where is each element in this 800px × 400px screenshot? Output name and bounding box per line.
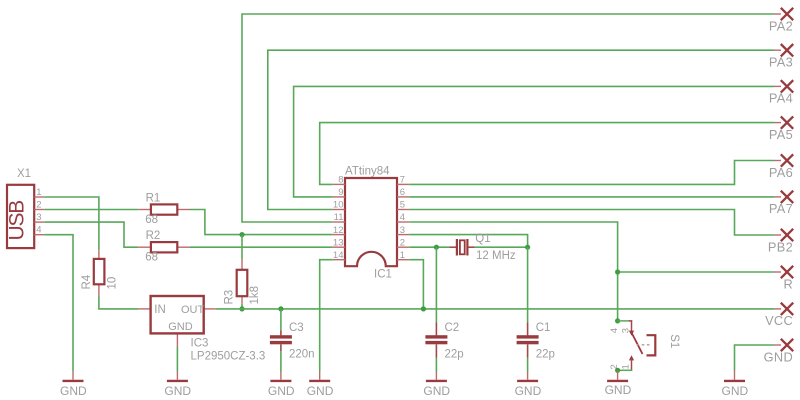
svg-text:4: 4 <box>36 225 41 236</box>
node pin1/VCC junction <box>421 306 426 311</box>
crystal Q1 <box>449 233 515 262</box>
svg-text:GND: GND <box>164 384 191 398</box>
wire PA5 net to pin8 <box>320 123 774 185</box>
wire pin6 to PA7 <box>409 196 774 198</box>
node crystal right junction <box>525 245 530 250</box>
ground under C3 <box>268 372 295 398</box>
svg-text:USB: USB <box>6 201 29 241</box>
svg-text:220n: 220n <box>289 348 315 360</box>
svg-text:ATtiny84: ATtiny84 <box>345 166 390 178</box>
svg-text:S1: S1 <box>668 334 680 348</box>
ground under C1 <box>515 372 542 398</box>
ground under IC3 <box>164 371 191 398</box>
svg-text:VCC: VCC <box>765 313 793 328</box>
port pin PA3 <box>769 44 793 70</box>
svg-text:1k8: 1k8 <box>249 286 261 305</box>
svg-text:7: 7 <box>400 175 405 186</box>
wire C1 to ground <box>527 358 529 373</box>
wire usb pin3 to R2 <box>44 222 138 247</box>
port pin PB2 <box>768 229 793 255</box>
svg-text:68: 68 <box>145 252 158 264</box>
port pin PA5 <box>769 116 793 141</box>
svg-text:GND: GND <box>605 383 632 397</box>
svg-text:10: 10 <box>106 277 118 290</box>
wire C3 to ground <box>280 351 282 372</box>
svg-text:IN: IN <box>154 304 166 316</box>
wire pin3 to crystal right <box>409 235 527 248</box>
svg-text:Q1: Q1 <box>475 233 490 245</box>
ground under pin14 <box>307 371 334 398</box>
svg-text:4: 4 <box>400 212 405 223</box>
svg-text:PA2: PA2 <box>769 18 793 33</box>
svg-text:3: 3 <box>621 328 632 333</box>
svg-text:5: 5 <box>400 200 405 211</box>
wire usb pin4 to ground <box>44 235 73 371</box>
svg-text:GND: GND <box>515 384 542 398</box>
wire PA4 net to pin9 <box>294 86 774 196</box>
node D- junction at R1/R3/pin12 <box>239 232 244 237</box>
resistor R3 <box>224 259 262 305</box>
wire pin2 to crystal left <box>409 246 449 248</box>
svg-text:GND: GND <box>168 321 193 333</box>
svg-text:GND: GND <box>764 349 793 364</box>
svg-text:11: 11 <box>334 212 344 223</box>
svg-text:PB2: PB2 <box>768 239 793 254</box>
svg-text:LP2950CZ-3.3: LP2950CZ-3.3 <box>191 350 266 362</box>
wire pin4 reset net <box>409 222 617 321</box>
svg-text:8: 8 <box>338 175 343 186</box>
wire R1 to IC1 pin12 <box>190 210 333 235</box>
capacitor C2 <box>425 247 463 360</box>
node C3/VCC junction <box>278 306 283 311</box>
wire GND port to ground <box>735 345 775 371</box>
port pin PA7 <box>769 191 793 217</box>
svg-text:PA5: PA5 <box>769 127 793 142</box>
wire usb pin1 to R4 <box>44 197 99 250</box>
svg-text:3: 3 <box>400 225 405 236</box>
wire pin7 to PA6 <box>409 161 774 185</box>
wire IC3 gnd pin down <box>176 347 178 371</box>
ground under usb <box>60 371 87 398</box>
port pin PA4 <box>769 80 793 106</box>
svg-text:GND: GND <box>268 384 295 398</box>
ground under GND port <box>722 371 749 399</box>
capacitor C3 <box>270 309 315 361</box>
wire pin5 to PB2 <box>409 210 774 236</box>
svg-text:IC3: IC3 <box>191 337 209 349</box>
wire R4 to IC3 IN <box>99 296 138 309</box>
svg-text:GND: GND <box>722 384 749 398</box>
svg-text:GND: GND <box>423 384 450 398</box>
svg-text:1: 1 <box>400 250 405 261</box>
svg-text:22p: 22p <box>445 348 464 360</box>
svg-text:10: 10 <box>333 200 344 211</box>
wire junction to R3 <box>241 235 243 259</box>
ground under C2 <box>423 372 450 398</box>
svg-text:R4: R4 <box>81 274 93 289</box>
svg-text:C3: C3 <box>289 322 304 334</box>
svg-text:12: 12 <box>333 225 344 236</box>
capacitor C1 <box>517 247 555 360</box>
svg-text:2: 2 <box>400 237 405 248</box>
svg-text:R2: R2 <box>146 230 161 242</box>
svg-text:R1: R1 <box>146 192 161 204</box>
svg-text:68: 68 <box>145 214 158 226</box>
pin stubs for ports <box>774 14 781 345</box>
usb connector X1 <box>6 168 45 248</box>
resistor R1 <box>138 192 190 226</box>
svg-text:6: 6 <box>400 187 405 198</box>
svg-text:PA7: PA7 <box>769 201 793 216</box>
node crystal left junction <box>434 245 439 250</box>
svg-text:22p: 22p <box>536 348 555 360</box>
svg-text:3: 3 <box>36 212 41 223</box>
svg-text:13: 13 <box>333 237 344 248</box>
svg-text:R: R <box>783 276 793 291</box>
wire PA2 net to pin11 <box>242 14 774 222</box>
node R3/VCC junction <box>239 306 244 311</box>
svg-text:GND: GND <box>307 384 334 398</box>
wire R3 bottom to VCC net <box>241 304 243 309</box>
svg-text:PA3: PA3 <box>769 55 793 70</box>
svg-text:PA6: PA6 <box>769 165 793 180</box>
port pin PA2 <box>769 8 793 34</box>
port pin R <box>781 266 793 292</box>
port pin GND <box>764 339 794 365</box>
node reset/R junction <box>615 269 620 274</box>
op IC1 ATtiny84 <box>333 166 410 281</box>
resistor R4 <box>81 250 119 296</box>
svg-text:C2: C2 <box>445 322 460 334</box>
port pin VCC <box>765 303 793 329</box>
svg-text:IC1: IC1 <box>374 269 392 281</box>
wire usb pin2 to R1 <box>44 209 138 211</box>
wire pin1 to VCC net <box>409 260 423 309</box>
wire PA3 net to pin10 <box>268 50 774 209</box>
svg-text:X1: X1 <box>17 168 31 180</box>
wire crystal right segment <box>475 246 528 248</box>
svg-text:OUT: OUT <box>181 304 205 316</box>
wire pin14 to ground <box>320 260 333 371</box>
svg-text:R3: R3 <box>224 290 236 305</box>
port pin PA6 <box>769 154 793 180</box>
svg-text:9: 9 <box>338 187 343 198</box>
svg-text:1: 1 <box>621 364 632 369</box>
ground under S1 <box>605 370 632 397</box>
voltage regulator IC3 <box>138 296 265 362</box>
wire VCC net from OUT to port <box>216 308 774 310</box>
svg-text:12 MHz: 12 MHz <box>476 250 516 262</box>
svg-text:GND: GND <box>60 384 87 398</box>
wire R2 to IC1 pin13 <box>190 246 333 248</box>
node switch top junction <box>615 318 620 323</box>
switch S1 <box>609 320 680 371</box>
svg-text:4: 4 <box>609 328 620 333</box>
svg-text:14: 14 <box>333 250 344 261</box>
wire reset to R port <box>618 271 774 273</box>
svg-text:PA4: PA4 <box>769 91 793 106</box>
wire C2 to ground <box>435 358 437 373</box>
node switch bottom junction <box>615 368 620 373</box>
svg-text:C1: C1 <box>536 322 551 334</box>
resistor R2 <box>138 230 190 264</box>
